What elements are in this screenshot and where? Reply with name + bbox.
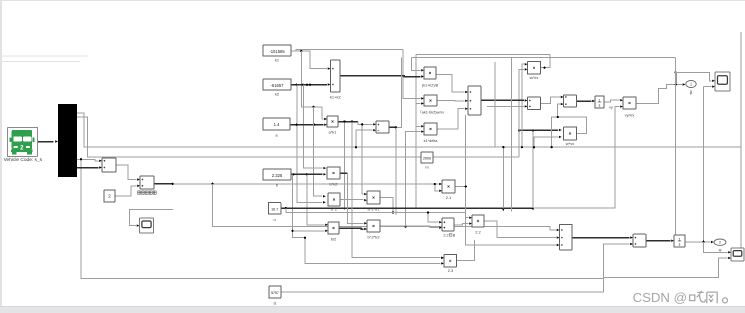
wire x511 vertical down xyxy=(510,58,512,212)
steer input sum 角阶跃输入 xyxy=(140,176,154,189)
svg-text:2: 2 xyxy=(719,241,721,245)
wire steer trunk branch to sum559 in1 xyxy=(213,184,556,230)
wire sum k1k2 out bold to (k1+k2)/B in2 xyxy=(340,75,420,78)
node b bottom xyxy=(304,237,306,239)
wire mux out2 to y157 trunk xyxy=(77,117,519,157)
wire top loop B xyxy=(412,57,676,59)
wire 2.1 out down to 2.2 in1 xyxy=(455,187,468,218)
svg-text:-61657: -61657 xyxy=(270,83,284,88)
wire steer trunk long to 2.1 in1 xyxy=(173,183,439,185)
wire x703 to scope1 in2 xyxy=(704,86,712,88)
wire 2.1 in2 tap xyxy=(435,184,439,191)
node b mid xyxy=(291,230,293,232)
svg-text:16.7: 16.7 xyxy=(271,207,278,211)
wire sum633 out bold xyxy=(646,240,670,242)
wire top loop A xyxy=(416,53,550,55)
scope 2 xyxy=(731,248,744,261)
wire sum2 out bold to integrator xyxy=(577,100,592,102)
canvas left edge strip xyxy=(0,0,2,306)
constant a xyxy=(263,118,290,130)
svg-text:k1*delta: k1*delta xyxy=(424,139,439,143)
junction node x81 xyxy=(80,158,82,160)
integrator 1 xyxy=(595,96,604,108)
svg-text:w/Vx: w/Vx xyxy=(530,75,539,80)
node k1 out xyxy=(300,50,302,52)
wire (k1+k2)/B out to tallsum in1 xyxy=(436,75,464,93)
product w*vx xyxy=(564,127,577,140)
wire k2 out bold to sum k1k2 in2 xyxy=(291,84,327,86)
wire sum527 in2 long xyxy=(487,105,524,107)
wire sum527 out to sum2 in1 xyxy=(541,97,560,103)
sum 559 tall xyxy=(560,224,573,250)
node k2 b xyxy=(302,84,304,86)
sum sm2 xyxy=(564,95,577,107)
node u line x428 xyxy=(427,211,429,213)
wire y147 branch to w*vx in2 xyxy=(534,137,558,147)
svg-text:（ak1-bk2)w/vx: （ak1-bk2)w/vx xyxy=(418,110,444,115)
svg-text:2.325: 2.325 xyxy=(272,173,283,178)
node steer trunk x211 xyxy=(211,183,213,185)
stub wire from left edge B xyxy=(0,61,80,63)
wire w bold line to w*vx in1 xyxy=(519,129,558,131)
wire beta node to scope1 in1 xyxy=(676,72,712,81)
node divider riser xyxy=(355,146,357,148)
wire divider out bold xyxy=(389,126,396,128)
svg-text:s: s xyxy=(599,103,601,107)
wire beta node vertical bold xyxy=(675,72,677,84)
wire divider dot column down xyxy=(395,127,397,215)
node y147 x521 xyxy=(521,146,523,148)
constant Iz xyxy=(269,286,281,298)
wire a*k1 column x344 down xyxy=(344,122,346,211)
node u out xyxy=(285,207,287,209)
wire Iz out trunk xyxy=(281,244,629,292)
svg-text:B: B xyxy=(453,234,456,238)
wire u out bold trunk xyxy=(281,207,533,209)
product 2.1 xyxy=(442,180,455,193)
svg-text:vy/Vx: vy/Vx xyxy=(625,113,635,118)
wire u line branch to 2.2B sum in1 xyxy=(428,213,438,223)
scope left xyxy=(140,218,154,233)
svg-text:1.4: 1.4 xyxy=(274,122,280,127)
svg-text:(k1+k2)/B: (k1+k2)/B xyxy=(422,84,439,88)
wire branch to scope left xyxy=(130,210,173,226)
product (ak1-bk2)w/vx xyxy=(424,95,437,106)
mux black bar xyxy=(58,104,77,177)
wire k1*delta out to tallsum in3 xyxy=(437,109,464,129)
wire b branch x306 down to b/2 in1 xyxy=(307,174,325,225)
wire a2k1 out down to u-thin line xyxy=(380,198,393,213)
sum S1 xyxy=(102,158,116,172)
wire b branch to b/2 in2 xyxy=(293,230,325,232)
node a*k1 out xyxy=(351,120,353,122)
product a*k1 xyxy=(327,116,338,127)
svg-text:Iz: Iz xyxy=(273,301,276,306)
canvas top edge line xyxy=(0,0,745,1)
node b line 1 xyxy=(292,173,294,175)
wire const2 to steer sum in2 xyxy=(115,186,137,196)
wire k1 column x313 down to u^2 in1 xyxy=(314,107,322,196)
product 2.2 xyxy=(472,215,484,227)
wire b out bold to b*k2 in2 xyxy=(291,173,323,175)
wire feedback from node x81 down to bottom trunk xyxy=(81,159,727,278)
wire steer branch up to k1*delta in2 xyxy=(406,132,421,227)
wire loop A left vertical to (ak1-bk2) in2 xyxy=(415,54,417,207)
node w line x533 xyxy=(532,129,534,131)
wire u branch x533 up xyxy=(532,130,534,208)
node a*k1 out xyxy=(351,120,353,122)
svg-text:w*vx: w*vx xyxy=(566,141,574,146)
wire k1 branch to a*k1 upper input xyxy=(301,51,323,119)
svg-text:CSDN @: CSDN @ xyxy=(633,290,687,305)
canvas bottom scrollbar strip xyxy=(0,306,745,307)
wire loop A branch to k1*delta in1 xyxy=(416,125,420,127)
wire w*vx out to sum2 in2 xyxy=(552,117,587,147)
product a^2*k1 xyxy=(367,191,380,204)
product w/Vx xyxy=(528,62,541,75)
constant 2 xyxy=(104,190,115,202)
wire a*k1 column x352 down to 2.3 in1 xyxy=(352,122,440,258)
outport beta xyxy=(686,81,696,88)
node beta top xyxy=(675,71,677,73)
sum 527 xyxy=(528,97,541,110)
wire a*k1 branch x362 to a2k1 in1 xyxy=(362,124,363,194)
node k2 c xyxy=(309,84,311,86)
product b*k2 xyxy=(327,167,340,179)
sum 633 xyxy=(633,234,646,247)
wire mux out1 to y147 trunk xyxy=(77,113,741,147)
wire b*k2 out down to b2k2 in1 xyxy=(340,172,348,174)
scope 1 xyxy=(715,72,730,91)
svg-text:b/2: b/2 xyxy=(331,237,337,242)
constant b xyxy=(263,169,291,180)
svg-text:Vehicle Code: s_s: Vehicle Code: s_s xyxy=(4,157,43,163)
node k2 d xyxy=(306,84,308,86)
svg-text:vy: vy xyxy=(609,106,613,110)
svg-text:a*k1: a*k1 xyxy=(328,130,337,135)
wire 2.2B out to 2.2 in2 xyxy=(454,224,468,225)
node beta mid xyxy=(675,83,677,85)
wire k2 branch to b*k2 in1 xyxy=(303,85,322,168)
node b line 2 xyxy=(306,173,308,175)
node y147 x534 xyxy=(533,146,535,148)
svg-text:2.2: 2.2 xyxy=(443,234,448,238)
wire b^2k2 out to 2.2B sum in2 xyxy=(380,226,438,228)
node a*k1 x344 xyxy=(343,120,345,122)
sum divider xyxy=(376,121,389,133)
wire k2 branch to u^2 in2 xyxy=(297,85,322,203)
constant k2 xyxy=(263,79,291,90)
svg-text:s: s xyxy=(679,242,681,246)
wire vertical x503 xyxy=(502,147,504,209)
node steer up xyxy=(405,226,407,228)
svg-text:2.3: 2.3 xyxy=(448,268,454,273)
svg-text:5757: 5757 xyxy=(271,291,279,295)
wire x703 long vertical xyxy=(703,87,705,242)
constant m xyxy=(421,152,433,163)
node u trunk end xyxy=(532,207,534,209)
node a line 2 xyxy=(313,124,315,126)
wire psi node to scope2 in1 xyxy=(704,242,728,253)
wire mux out4 bold to sum S1 in2 xyxy=(77,167,99,169)
node 2.1 tap xyxy=(434,183,436,185)
wire u second line to sum559 in3 xyxy=(286,208,556,245)
sum tall mid xyxy=(468,86,481,115)
svg-text:u*2: u*2 xyxy=(331,207,338,212)
wire sum S1 out to steer sum in1 xyxy=(116,165,137,180)
svg-text:-101565: -101565 xyxy=(269,49,285,54)
node divider out xyxy=(395,126,397,128)
wire right edge long vertical xyxy=(740,32,742,252)
sum 2.2B xyxy=(442,218,454,231)
wire 2.2 out to sum559 in2 xyxy=(484,221,556,238)
svg-text:a^2*k1: a^2*k1 xyxy=(367,207,380,212)
wire u^2 out to a2k1 in2 xyxy=(340,199,363,201)
constant u xyxy=(268,202,280,214)
node a2k1 join xyxy=(392,211,394,213)
wire steer out bold xyxy=(154,183,173,185)
product b/2 xyxy=(328,222,339,234)
svg-text:b^2*k2: b^2*k2 xyxy=(367,235,380,240)
product k1*delta xyxy=(424,123,437,135)
product b^2*k2 xyxy=(367,220,380,232)
wire integrator2 out to psi xyxy=(685,241,710,243)
wire divider in2 riser xyxy=(356,130,372,147)
svg-text:k1+k2: k1+k2 xyxy=(330,94,342,99)
node y147 x503 xyxy=(502,146,504,148)
wire x495 vertical xyxy=(494,62,496,147)
product 2.3 xyxy=(444,255,457,268)
wire tallsum out bold xyxy=(481,99,524,101)
svg-text:2.1: 2.1 xyxy=(446,195,452,200)
svg-text:1: 1 xyxy=(690,82,692,86)
product u^2 xyxy=(328,193,340,206)
wire mux out3 to sum S1 in1 xyxy=(77,159,99,161)
product vy/Vx xyxy=(623,97,636,109)
svg-text:ψ: ψ xyxy=(719,247,722,252)
wire a out bold to a*k1 in2 xyxy=(290,124,324,126)
constant k1 xyxy=(263,45,291,56)
wire k1 top line to (ak1-bk2) in1 xyxy=(296,49,420,98)
sum k1+k2 xyxy=(331,60,341,92)
wire integrator out to vy/Vx in1 xyxy=(604,100,619,102)
node w line x519 xyxy=(518,129,520,131)
wire vehicle block to mux xyxy=(38,141,54,143)
integrator 2 xyxy=(674,235,685,247)
node psi xyxy=(702,241,704,243)
wire k1 out to sum k1k2 in1 xyxy=(291,51,327,69)
product (k1+k2)/B xyxy=(424,67,436,79)
wire w/Vx in1 riser xyxy=(522,64,524,147)
svg-text:2000: 2000 xyxy=(423,157,431,161)
stub wire from left edge A xyxy=(0,55,88,57)
wire 2.3 out up xyxy=(456,240,475,261)
node steer out xyxy=(172,183,174,185)
wire (ak1-bk2) out to tallsum in2 xyxy=(437,100,464,102)
outport psi xyxy=(714,239,726,245)
wire w/Vx out up to loop A xyxy=(541,54,551,67)
wire vy/Vx out to beta node xyxy=(636,85,682,104)
source block Vehicle Code s_s (green vehicle icon) xyxy=(4,128,43,164)
wire u thin continuation to vy/Vx in2 xyxy=(533,107,619,209)
svg-text:u: u xyxy=(273,217,275,222)
wire b/2 out to b2k2 in2 xyxy=(339,227,363,230)
svg-text:2.2: 2.2 xyxy=(475,230,481,235)
node k2 a xyxy=(295,84,297,86)
wire b branch down left xyxy=(293,174,441,263)
node a line 1 xyxy=(295,124,297,126)
node a*k1 branch xyxy=(361,123,363,125)
svg-text:b*k2: b*k2 xyxy=(329,182,338,187)
wire sum559 out bold xyxy=(572,237,629,239)
wire loop B left vertical to (k1+k2)/B in1 xyxy=(412,58,421,71)
wire a*k1 column x352 down to 2.3 in1 xyxy=(352,122,440,258)
node k1 branch xyxy=(312,106,314,108)
wire w/Vx in2 riser xyxy=(519,69,524,157)
wire a*k1 out to divider in1 xyxy=(338,121,358,123)
